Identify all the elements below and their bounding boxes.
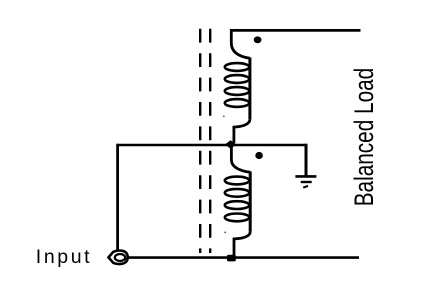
phase dot (bottom winding) [255, 152, 263, 159]
phase dot (top winding) [254, 36, 262, 43]
svg-text:Balanced Load: Balanced Load [349, 68, 379, 207]
wire: middle horizontal (center tap to input / ground) [118, 144, 306, 147]
wire: bottom horizontal to balanced load [127, 256, 360, 259]
stray mark near bottom winding [224, 232, 226, 234]
node: bottom junction [227, 255, 236, 262]
winding L2 (bottom): lead-in, loops, right rail, lead-out [225, 146, 251, 257]
wire: ground drop (vertical) [305, 144, 308, 176]
transformer core (dashed line, right) [209, 29, 211, 253]
connector J1 (coax input) [109, 251, 128, 264]
node: center tap junction [225, 140, 236, 149]
wire: top horizontal to balanced load [231, 29, 360, 32]
transformer core (dashed line, left) [199, 29, 201, 253]
wire: left vertical (middle wire down to input connector) [116, 144, 119, 250]
svg-text:Input: Input [36, 246, 92, 268]
winding L1 (top): lead-in, loops, right rail, lead-out [225, 29, 250, 143]
ground [295, 176, 316, 187]
label "Input" [36, 246, 92, 268]
label "Balanced Load" [349, 68, 379, 207]
stray mark near top winding [223, 116, 225, 117]
